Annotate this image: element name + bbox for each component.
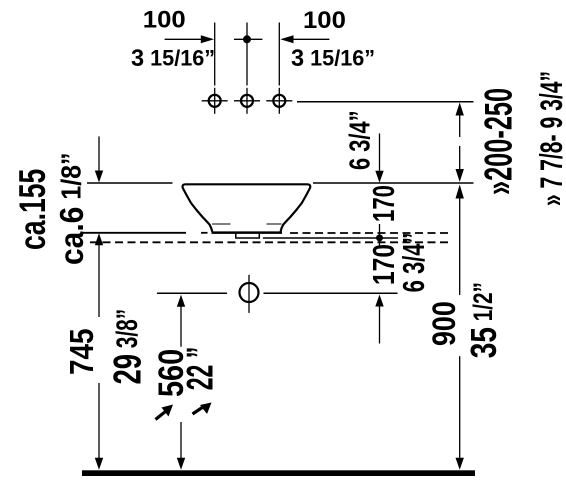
svg-text:22 ”: 22 ” bbox=[179, 347, 221, 391]
svg-text:6 3/4”: 6 3/4” bbox=[345, 110, 377, 170]
svg-text:100: 100 bbox=[143, 6, 186, 33]
svg-text:6 3/4”: 6 3/4” bbox=[396, 232, 431, 292]
svg-text:100: 100 bbox=[303, 7, 346, 34]
svg-text:» 7 7/8- 9 3/4”: » 7 7/8- 9 3/4” bbox=[534, 71, 566, 206]
svg-text:3 15/16”: 3 15/16” bbox=[291, 45, 375, 72]
svg-text:3 15/16”: 3 15/16” bbox=[131, 45, 215, 72]
svg-text:29 3/8”: 29 3/8” bbox=[107, 309, 150, 385]
svg-text:745: 745 bbox=[64, 328, 101, 375]
svg-text:35 1/2”: 35 1/2” bbox=[463, 282, 503, 358]
svg-text:ca.155: ca.155 bbox=[12, 169, 53, 250]
svg-text:»200-250: »200-250 bbox=[476, 88, 520, 195]
svg-text:900: 900 bbox=[427, 301, 463, 346]
svg-text:ca.6 1/8”: ca.6 1/8” bbox=[52, 152, 90, 265]
svg-text:170: 170 bbox=[366, 185, 400, 222]
